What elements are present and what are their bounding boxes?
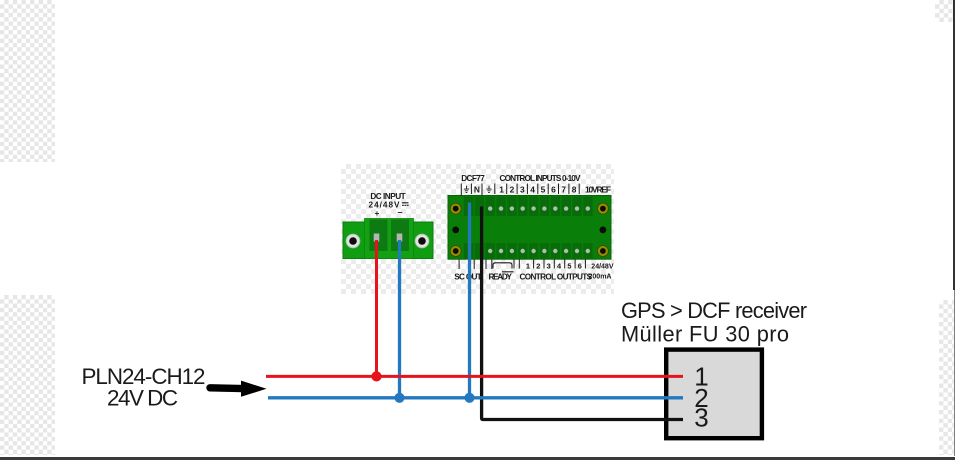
bottom pin dots — [488, 249, 590, 253]
junction blue A — [394, 393, 404, 403]
wire blue dcf vertical — [468, 203, 471, 398]
svg-text:4: 4 — [557, 261, 562, 270]
top pin dots — [488, 206, 590, 210]
svg-text:8: 8 — [572, 185, 577, 195]
bottom pin label row — [459, 260, 585, 270]
top slot row — [464, 197, 593, 217]
terminal strip J2: body — [448, 196, 611, 260]
svg-text:3: 3 — [694, 403, 708, 433]
svg-text:+: + — [375, 209, 380, 218]
svg-text:24/48V: 24/48V — [591, 263, 614, 270]
junction red — [371, 371, 381, 381]
svg-text:10VREF: 10VREF — [585, 185, 611, 195]
svg-text:6: 6 — [578, 261, 582, 270]
connector J1 DC INPUT: body — [343, 219, 433, 259]
svg-text:CONTROL OUTPUTS: CONTROL OUTPUTS — [520, 273, 593, 282]
wire red bus horizontal — [266, 375, 683, 378]
ferrule + — [374, 234, 380, 242]
svg-text:3: 3 — [520, 185, 525, 195]
svg-text:24V DC: 24V DC — [107, 386, 178, 411]
label DC INPUT — [369, 192, 409, 218]
ferrule - — [397, 234, 403, 242]
svg-text:2: 2 — [510, 185, 515, 195]
J1 slot + — [370, 220, 388, 252]
svg-text:5: 5 — [567, 261, 571, 270]
arrow supply — [210, 384, 243, 392]
svg-text:24/48V: 24/48V — [369, 201, 401, 210]
wire red plus vertical — [375, 240, 378, 376]
svg-text:DCF77: DCF77 — [461, 174, 485, 183]
pin label earth 2 — [486, 186, 491, 193]
svg-text:4: 4 — [530, 185, 535, 195]
J2 corner screws — [450, 203, 608, 256]
svg-text:READY: READY — [488, 273, 512, 282]
J1 screw left — [346, 234, 360, 248]
svg-text:Müller FU 30 pro: Müller FU 30 pro — [621, 322, 789, 347]
wire blue minus vertical — [398, 240, 401, 398]
bottom slot row — [464, 243, 593, 259]
top pin label row — [461, 184, 579, 196]
svg-text:2: 2 — [536, 261, 540, 270]
GPS receiver box U1 — [666, 350, 762, 439]
svg-text:CONTROL INPUTS 0-10V: CONTROL INPUTS 0-10V — [500, 174, 582, 183]
svg-text:N: N — [474, 185, 480, 195]
svg-text:–: – — [397, 207, 402, 217]
wire black N to U1 pin3 — [482, 207, 683, 420]
J1 screw right — [415, 234, 429, 248]
pin label earth 1 — [464, 186, 469, 193]
svg-text:7: 7 — [561, 185, 566, 195]
svg-text:GPS > DCF receiver: GPS > DCF receiver — [621, 298, 807, 323]
svg-text:6: 6 — [551, 185, 556, 195]
J1 slot - — [391, 220, 409, 252]
svg-text:1: 1 — [526, 261, 530, 270]
junction blue B — [464, 393, 474, 403]
svg-text:DC INPUT: DC INPUT — [370, 192, 405, 201]
svg-text:1: 1 — [499, 185, 504, 195]
J2 middle dots — [452, 227, 459, 234]
wire blue bus horizontal — [268, 396, 683, 399]
svg-text:5: 5 — [541, 185, 546, 195]
relay symbol — [493, 263, 514, 272]
svg-text:3: 3 — [547, 261, 551, 270]
